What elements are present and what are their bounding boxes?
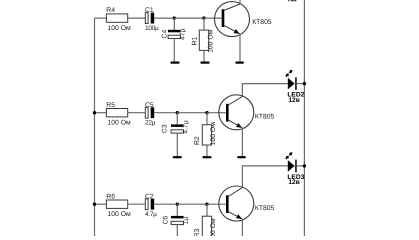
label 12в of LED1 (cut off at top) — [288, 0, 296, 1]
wire: C6 to bottom edge — [176, 225, 178, 236]
svg-text:R1: R1 — [192, 36, 199, 45]
node junction LED3 on bus — [303, 164, 306, 167]
node junction LED2 on bus — [303, 82, 306, 85]
wire: R1 to ground — [203, 50, 205, 61]
capacitor C6 — [162, 216, 189, 225]
svg-text:C4: C4 — [161, 30, 168, 39]
wire: C2 to node (stage 3) — [154, 203, 177, 205]
resistor R2 — [194, 122, 217, 146]
wire: R6 to C2 — [128, 203, 146, 205]
svg-text:R3: R3 — [194, 228, 201, 236]
svg-text:C2: C2 — [145, 193, 154, 200]
svg-text:R2: R2 — [194, 136, 201, 145]
resistor R6 — [106, 193, 131, 218]
wire: C1 to node (stage 1) — [154, 17, 174, 19]
svg-text:100 Ом: 100 Ом — [210, 122, 217, 146]
svg-text:12в: 12в — [288, 179, 299, 186]
ground under C4 — [171, 62, 180, 64]
wire: LED2 cathode to bus — [297, 83, 305, 85]
svg-text:R6: R6 — [106, 193, 115, 200]
node junction C6 tap — [176, 203, 179, 206]
wire: node to node (stage 1) — [174, 17, 204, 19]
svg-text:КТ805: КТ805 — [255, 205, 275, 212]
capacitor C2 — [145, 193, 157, 218]
svg-text:100 Ом: 100 Ом — [108, 25, 132, 32]
wire: node down to R2 — [206, 113, 208, 125]
resistor R1 — [192, 29, 215, 53]
wire: node down to C6 — [176, 204, 178, 216]
wire: emitter of Q2 to ground — [241, 129, 243, 156]
svg-text:100 Ом: 100 Ом — [207, 29, 214, 53]
ground under Q1 emitter — [236, 62, 244, 64]
node junction R2 tap — [205, 111, 208, 114]
wire: R4 to C1 — [128, 17, 146, 19]
svg-text:R5: R5 — [106, 102, 115, 109]
svg-text:КТ805: КТ805 — [255, 113, 275, 120]
svg-text:C6: C6 — [162, 216, 169, 225]
transistor Q3 KT805 — [219, 186, 275, 221]
svg-text:4.7µ: 4.7µ — [182, 120, 189, 133]
wire: node to base of Q2 — [207, 112, 228, 114]
capacitor C5 — [145, 102, 156, 127]
wire: bus to R5 (stage 2) — [95, 112, 107, 114]
capacitor C1 — [145, 7, 159, 32]
wire: R5 to C5 — [128, 112, 146, 114]
ground under R1 — [201, 62, 210, 64]
wire: collector of Q1 to top edge (to LED1) — [239, 0, 241, 4]
wire: right ground bus vertical — [303, 0, 305, 236]
wire: emitter of Q1 to ground — [239, 35, 241, 62]
wire: bus to R6 (stage 3) — [95, 203, 107, 205]
node junction R3 tap — [205, 203, 208, 206]
svg-text:1µ: 1µ — [182, 217, 189, 225]
node junction R1 tap — [202, 16, 205, 19]
wire: R2 to ground — [206, 145, 208, 156]
capacitor C4 — [161, 28, 186, 40]
wire: left supply bus vertical — [94, 18, 96, 236]
wire: emitter of Q3 to bottom edge — [241, 220, 243, 236]
node junction on supply bus (stage 2) — [93, 111, 96, 114]
svg-text:12в: 12в — [288, 97, 299, 104]
wire: C3 to ground — [176, 133, 178, 156]
svg-text:C5: C5 — [145, 102, 154, 109]
LED LED3 — [286, 152, 305, 186]
transistor Q1 KT805 — [215, 2, 272, 37]
svg-text:КТ805: КТ805 — [252, 19, 272, 26]
ground under C3 — [173, 156, 182, 158]
wire: node to base of Q1 — [204, 17, 224, 19]
wire: node to base of Q3 — [207, 203, 228, 205]
node junction C3 tap — [176, 111, 179, 114]
wire: node down to C3 — [176, 113, 178, 125]
svg-text:R4: R4 — [106, 7, 115, 14]
wire: C5 to node (stage 2) — [154, 112, 177, 114]
wire: C4 to ground — [173, 39, 175, 62]
LED LED2 — [286, 70, 305, 104]
svg-text:C1: C1 — [145, 7, 154, 14]
wire: node down to R3 — [206, 204, 208, 216]
wire: node to node (stage 3) — [177, 203, 207, 205]
node junction C4 tap — [173, 16, 176, 19]
svg-text:100µ: 100µ — [145, 25, 159, 32]
svg-text:C3: C3 — [162, 124, 169, 133]
node junction on supply bus (stage 3) — [93, 203, 96, 206]
wire: node to node (stage 2) — [177, 112, 207, 114]
transistor Q2 KT805 — [219, 95, 275, 130]
resistor R3 — [194, 216, 217, 240]
resistor R5 — [106, 102, 131, 127]
ground under Q2 emitter — [237, 156, 245, 158]
svg-text:100 Ом: 100 Ом — [108, 120, 132, 127]
svg-text:100 Ом: 100 Ом — [108, 211, 132, 218]
ground under R2 — [203, 156, 212, 158]
svg-text:47µ: 47µ — [180, 28, 187, 40]
wire: collector of Q2 to LED2 — [242, 84, 287, 96]
svg-text:4.7µ: 4.7µ — [145, 211, 157, 218]
capacitor C3 — [162, 120, 190, 133]
svg-text:22µ: 22µ — [145, 120, 156, 127]
resistor R4 — [106, 7, 131, 32]
wire: LED3 cathode to bus — [297, 165, 305, 167]
svg-text:100 Ом: 100 Ом — [210, 218, 217, 236]
wire: node down to C4 — [173, 18, 175, 30]
wire: bus to R4 (stage 1) — [95, 17, 107, 19]
wire: node down to R1 — [203, 18, 205, 30]
wire: collector of Q3 to LED3 — [242, 166, 287, 187]
